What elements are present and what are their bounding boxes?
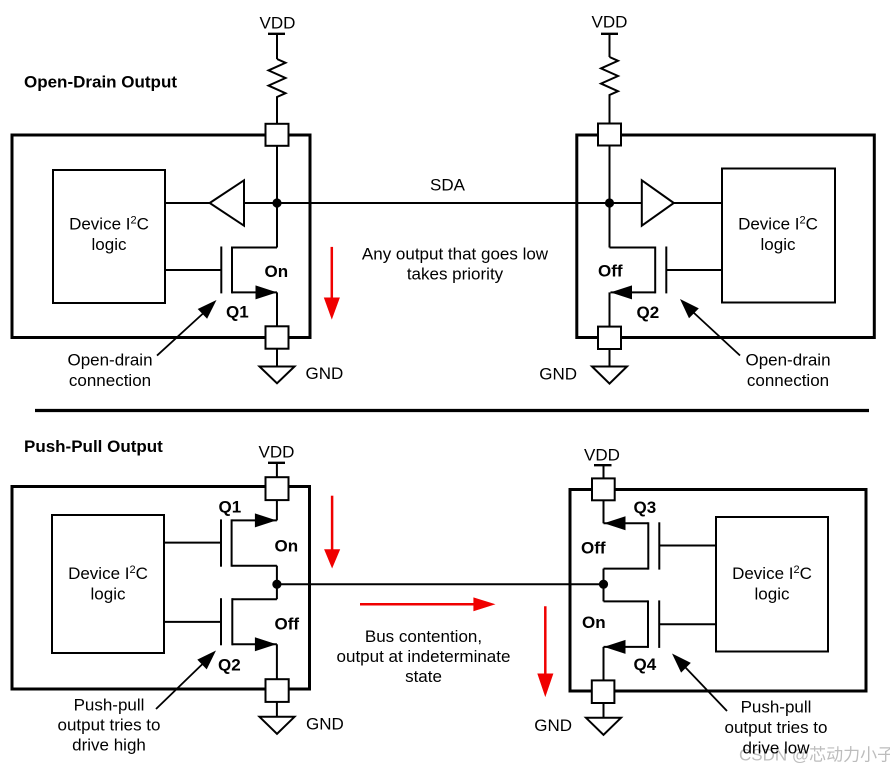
svg-text:Off: Off: [275, 615, 300, 634]
wire VDD bar to resistor (right): [609, 34, 611, 57]
transistor Q1 source line: [232, 291, 277, 293]
transistor Q1 channel bar: [231, 519, 233, 566]
transistor Q1 source arrow: [256, 285, 278, 299]
svg-text:On: On: [275, 536, 299, 555]
wire SDA bus: [277, 202, 610, 204]
transistor Q4 gate bar: [658, 600, 660, 648]
wire U1 pin to SDA junction: [276, 146, 278, 248]
svg-text:state: state: [405, 667, 442, 686]
red flow arrow (contention current along bus): [360, 597, 496, 611]
svg-text:VDD: VDD: [259, 442, 295, 461]
red flow arrow (Q4 sinks low, down to GND): [537, 606, 553, 697]
svg-text:Device I2C: Device I2C: [69, 215, 149, 234]
wire VDD pin to Q3 source corner: [603, 500, 605, 523]
pin (U3 bottom, GND): [266, 679, 289, 702]
svg-text:On: On: [582, 613, 606, 632]
svg-text:Q1: Q1: [226, 303, 249, 322]
svg-text:GND: GND: [306, 715, 344, 734]
annotation: open-drain connection (left): [67, 300, 216, 390]
svg-text:connection: connection: [69, 371, 151, 390]
svg-text:Q1: Q1: [219, 497, 242, 516]
device U1 outline (left open-drain device): [12, 135, 310, 338]
transistor Q2 source line: [611, 291, 656, 293]
transistor Q2 source arrow: [611, 285, 633, 299]
wire VDD bar to pin: [603, 465, 605, 479]
svg-text:connection: connection: [747, 371, 829, 390]
svg-text:logic: logic: [91, 585, 126, 604]
svg-text:Bus contention,: Bus contention,: [365, 627, 482, 646]
wire logic box to buffer apex: [165, 202, 210, 204]
transistor Q1 drain line (bottom): [232, 565, 277, 567]
transistor Q2 drain line: [610, 247, 656, 249]
svg-text:VDD: VDD: [584, 446, 620, 465]
ground symbol (U4): [586, 718, 621, 735]
wire U2 pin to SDA junction: [609, 146, 611, 248]
pin (U2 top, VDD): [598, 124, 621, 146]
svg-text:drive high: drive high: [72, 736, 146, 755]
transistor Q2 channel bar: [231, 598, 233, 645]
wire Q2 source to bottom pin: [276, 644, 278, 680]
annotation: push-pull output tries to drive high: [57, 651, 216, 755]
wire VDD pin to Q1 source corner: [276, 498, 278, 520]
block: Device I2C logic (U1): [53, 170, 165, 303]
wire pin to GND symbol (push-pull left): [276, 702, 278, 717]
divider line between sections: [35, 409, 869, 412]
wire pin to GND symbol (push-pull right): [603, 703, 605, 718]
transistor Q4 source line (bottom): [604, 646, 649, 648]
red flow arrow (open-drain, current sinks low): [324, 247, 340, 320]
device U3 outline (left push-pull device): [12, 487, 310, 690]
node output junction dot (left): [272, 580, 281, 589]
wire buffer base to junction: [244, 202, 277, 204]
svg-text:output tries to: output tries to: [724, 718, 827, 737]
svg-text:logic: logic: [92, 235, 127, 254]
pin (U4 bottom, GND): [592, 680, 615, 703]
note: any output that goes low takes priority: [362, 245, 549, 284]
svg-text:On: On: [265, 262, 289, 281]
svg-text:Any output that goes low: Any output that goes low: [362, 245, 549, 264]
block: Device I2C logic (U4): [716, 517, 828, 652]
ground symbol (U1): [260, 367, 295, 384]
transistor Q1 source line (top): [232, 519, 277, 521]
transistor Q1 source arrow: [255, 513, 277, 527]
wire gate of Q1 to logic box: [164, 542, 221, 544]
transistor Q1 gate bar: [220, 519, 222, 566]
transistor Q3 channel bar: [647, 522, 649, 569]
transistor Q3 drain line (bottom): [604, 568, 649, 570]
wire gate of Q4 to logic box: [659, 623, 716, 625]
transistor Q2 gate bar: [665, 247, 667, 294]
transistor Q3 source arrow: [604, 516, 626, 530]
block: Device I2C logic (U2): [722, 169, 835, 303]
wire gate of Q3 to logic box: [659, 545, 716, 547]
wire Q3 drain to Q4 drain (through output node): [603, 569, 605, 602]
transistor Q2 source line (bottom): [232, 643, 277, 645]
buffer U2A (output buffer, points right): [642, 180, 674, 225]
svg-text:drive low: drive low: [742, 739, 810, 758]
wire gate of Q2 to logic box: [666, 269, 722, 271]
svg-text:Push-pull: Push-pull: [741, 698, 812, 717]
wire resistor to pin: [276, 99, 278, 124]
device U4 outline (right push-pull device): [570, 490, 866, 692]
svg-text:Open-drain: Open-drain: [745, 351, 830, 370]
wire output bus (contention): [277, 583, 604, 585]
svg-text:logic: logic: [761, 235, 796, 254]
svg-text:Push-pull: Push-pull: [74, 696, 145, 715]
pin (U1 bottom, GND): [266, 326, 289, 348]
wire Q2 source to bottom pin: [609, 292, 611, 327]
svg-text:Q2: Q2: [218, 655, 241, 674]
svg-text:Device I2C: Device I2C: [68, 564, 148, 583]
annotation: push-pull output tries to drive low: [672, 654, 828, 758]
svg-text:Off: Off: [581, 538, 606, 557]
wire Q1 drain to Q2 drain (through output node): [276, 566, 278, 600]
svg-text:GND: GND: [534, 716, 572, 735]
wire pin to GND symbol (right): [609, 349, 611, 367]
transistor Q1 channel bar: [231, 247, 233, 294]
svg-text:Q4: Q4: [634, 655, 657, 674]
transistor Q3 gate bar: [658, 522, 660, 569]
svg-text:Device I2C: Device I2C: [738, 215, 818, 234]
transistor Q4 channel bar: [647, 600, 649, 648]
transistor Q4 source arrow: [604, 640, 626, 654]
svg-text:VDD: VDD: [592, 13, 628, 32]
node junction dot (right, SDA): [605, 198, 614, 207]
wire Q1 source to bottom pin: [276, 292, 278, 327]
svg-text:Open-drain: Open-drain: [67, 351, 152, 370]
node output junction dot (right): [599, 580, 608, 589]
svg-text:output at indeterminate: output at indeterminate: [337, 647, 511, 666]
svg-text:takes priority: takes priority: [407, 265, 504, 284]
transistor Q2 gate bar: [220, 598, 222, 645]
svg-text:Push-Pull Output: Push-Pull Output: [24, 437, 163, 456]
VDD rail bar (left): [268, 33, 285, 35]
svg-text:SDA: SDA: [430, 176, 466, 195]
node junction dot (left, SDA): [272, 198, 281, 207]
transistor Q4 drain line (top): [604, 600, 649, 602]
resistor R2 (pull-up, right): [601, 57, 618, 96]
wire Q4 source to bottom pin: [603, 647, 605, 681]
svg-text:logic: logic: [755, 585, 790, 604]
svg-text:Q2: Q2: [637, 303, 660, 322]
VDD rail bar (right): [601, 33, 618, 35]
transistor Q1 drain line: [232, 247, 277, 249]
resistor R1 (pull-up, left): [269, 59, 286, 99]
device U2 outline (right open-drain device): [577, 135, 875, 338]
wire buffer apex to logic box (right): [674, 202, 722, 204]
buffer U1A (input buffer, points left): [210, 180, 244, 225]
svg-text:Q3: Q3: [634, 498, 657, 517]
pin (U2 bottom, GND): [598, 327, 621, 349]
wire VDD bar to pin: [276, 463, 278, 478]
svg-text:VDD: VDD: [260, 14, 296, 33]
transistor Q1 gate bar: [220, 247, 222, 294]
svg-text:GND: GND: [539, 364, 577, 383]
svg-text:Off: Off: [598, 262, 623, 281]
transistor Q2 source arrow: [255, 637, 277, 651]
wire VDD bar to resistor: [276, 34, 278, 59]
pin (U1 top, VDD): [266, 124, 289, 146]
VDD rail bar (push-pull right): [594, 464, 612, 466]
ground symbol (U3): [260, 717, 295, 734]
pin (U4 top, VDD): [592, 478, 615, 500]
transistor Q3 source line (top): [604, 522, 649, 524]
wire junction to buffer base (right): [610, 202, 642, 204]
pin (U3 top, VDD): [266, 477, 289, 500]
transistor Q2 drain line (top): [232, 598, 277, 600]
wire gate of Q2 to logic box: [164, 621, 221, 623]
VDD rail bar (push-pull left): [268, 462, 285, 464]
annotation: open-drain connection (right): [680, 299, 831, 390]
red flow arrow (Q1 drives high, down into node): [324, 496, 340, 569]
svg-text:Device I2C: Device I2C: [732, 564, 812, 583]
wire pin to GND symbol: [276, 349, 278, 367]
wire resistor to pin (right): [609, 96, 611, 124]
svg-text:GND: GND: [306, 364, 344, 383]
svg-text:output tries to: output tries to: [57, 716, 160, 735]
note: bus contention, output at indeterminate state: [337, 627, 511, 686]
ground symbol (U2): [592, 367, 627, 384]
wire gate of Q1 to logic box: [165, 269, 221, 271]
block: Device I2C logic (U3): [52, 515, 164, 653]
svg-text:Open-Drain Output: Open-Drain Output: [24, 73, 177, 92]
transistor Q2 channel bar: [654, 247, 656, 294]
